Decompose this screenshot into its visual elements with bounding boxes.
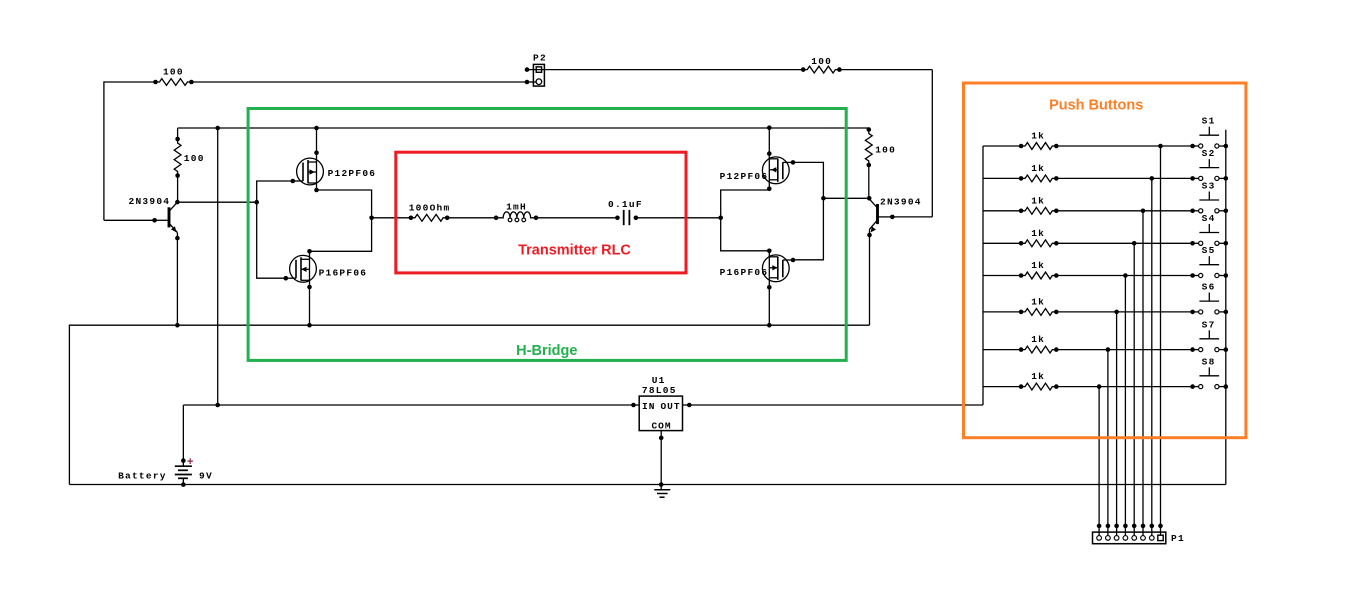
svg-text:Battery: Battery: [118, 471, 167, 482]
wire RLC series link: [372, 217, 411, 219]
junction row S3 / column: [1141, 209, 1146, 214]
resistor R 100 top-left: [156, 79, 192, 86]
wire left drain bus: [310, 190, 372, 251]
wire top-right feed: [527, 69, 803, 71]
svg-text:+: +: [187, 457, 194, 469]
svg-text:100Ohm: 100Ohm: [409, 203, 451, 214]
wire column to P1 pin 7: [1107, 350, 1109, 536]
ground symbol: [654, 485, 670, 498]
wire M1 source drop: [316, 128, 318, 153]
svg-text:100: 100: [811, 56, 832, 67]
mosfet M2 P16PF06 bottom-left: [284, 249, 317, 289]
capacitor 0.1uF: [623, 210, 625, 225]
switch S8: [1190, 367, 1228, 389]
svg-text:IN: IN: [642, 401, 655, 412]
svg-text:P12PF06: P12PF06: [720, 171, 769, 182]
wire push-button row S3: [983, 210, 1021, 212]
wire push-button row S2: [983, 177, 1021, 179]
wire battery column vertical: [217, 128, 219, 405]
svg-text:S5: S5: [1202, 245, 1216, 256]
svg-text:0.1uF: 0.1uF: [608, 199, 643, 210]
resistor 100Ohm: [411, 214, 447, 221]
wire push-button row S6: [983, 311, 1021, 313]
svg-text:P1: P1: [1171, 533, 1185, 544]
svg-text:Push Buttons: Push Buttons: [1049, 98, 1143, 114]
inductor 1mH: [496, 212, 536, 218]
mosfet M1 P12PF06 top-left: [291, 150, 324, 192]
transistor Q2 2N3904 right: [867, 196, 895, 237]
svg-text:H-Bridge: H-Bridge: [516, 343, 577, 359]
wire Q1 emitter drop: [176, 238, 178, 325]
junction row S2 / column: [1150, 176, 1155, 181]
svg-text:P12PF06: P12PF06: [328, 168, 377, 179]
svg-text:COM: COM: [651, 420, 671, 431]
wire M4 source to bottom rail: [768, 287, 770, 325]
switch S3: [1190, 192, 1228, 214]
junction top rail / M1 source: [314, 126, 319, 131]
wire push-button row S7: [983, 349, 1021, 351]
svg-text:1k: 1k: [1031, 334, 1045, 345]
switch S2: [1190, 159, 1228, 181]
svg-text:78L05: 78L05: [642, 385, 677, 396]
wire Q2 base feed: [892, 216, 932, 218]
wire M2 source to bottom rail: [309, 287, 311, 325]
svg-text:2N3904: 2N3904: [880, 197, 922, 208]
Push Buttons annotation box: [964, 83, 1246, 438]
svg-text:OUT: OUT: [660, 401, 680, 412]
wire push-button row S4: [983, 242, 1021, 244]
svg-text:9V: 9V: [199, 471, 213, 482]
Transmitter RLC annotation box: [396, 152, 686, 273]
wire column to P1 pin 6: [1116, 312, 1118, 535]
wire push-button row S8: [983, 386, 1021, 388]
svg-text:1k: 1k: [1031, 260, 1045, 271]
svg-text:P16PF06: P16PF06: [319, 268, 368, 279]
wire right drain bus: [721, 190, 770, 251]
resistor 1k row S8: [1021, 383, 1056, 390]
svg-text:1k: 1k: [1031, 131, 1045, 142]
junction bottom rail / M4 source: [767, 323, 772, 328]
wire U1 COM to ground rail: [660, 438, 662, 485]
junction right drain bus / RLC: [718, 216, 723, 221]
junction bottom rail / Q1 emitter: [175, 323, 180, 328]
connector P1: [1093, 524, 1166, 544]
wire top-left V+ feed: [104, 81, 156, 83]
connector P2: [525, 64, 545, 86]
svg-text:P2: P2: [533, 53, 547, 64]
wire column to P1 pin 3: [1142, 211, 1144, 535]
svg-text:S8: S8: [1202, 356, 1216, 367]
wire Q2 emitter to bottom rail: [869, 235, 871, 325]
battery 9V: [175, 405, 192, 487]
switch S4: [1190, 224, 1228, 246]
junction row S5 / column: [1123, 273, 1128, 278]
junction top rail / M3 source: [767, 125, 772, 130]
switch S6: [1190, 293, 1228, 315]
svg-text:1k: 1k: [1031, 296, 1045, 307]
wire right gate rail: [793, 162, 823, 259]
wire U1 OUT to push-button rail: [689, 404, 983, 406]
wire left gate rail: [257, 181, 293, 278]
junction left drain bus / RLC: [369, 216, 374, 221]
wire top H-bridge rail: [178, 127, 869, 129]
svg-text:S7: S7: [1202, 319, 1216, 330]
junction right gate rail / drive: [821, 196, 826, 201]
wire column to P1 pin 4: [1133, 243, 1135, 535]
junction top rail / battery column: [215, 126, 220, 131]
svg-text:S1: S1: [1202, 116, 1216, 127]
wire bottom H-bridge rail: [69, 325, 869, 484]
regulator U1 78L05: [631, 396, 691, 440]
svg-text:S6: S6: [1202, 282, 1216, 293]
wire supply rail to U1 IN: [183, 404, 633, 406]
svg-text:1k: 1k: [1031, 228, 1045, 239]
resistor 1k row S5: [1021, 272, 1056, 279]
transistor Q1 2N3904: [152, 200, 179, 241]
svg-text:2N3904: 2N3904: [129, 196, 171, 207]
svg-text:Transmitter RLC: Transmitter RLC: [518, 242, 631, 258]
resistor 1k row S4: [1021, 240, 1056, 247]
svg-text:P16PF06: P16PF06: [720, 267, 769, 278]
svg-text:100: 100: [184, 153, 205, 164]
svg-text:1k: 1k: [1031, 163, 1045, 174]
svg-text:S3: S3: [1202, 181, 1216, 192]
wire column to P1 pin 1: [1160, 146, 1162, 535]
junction row S7 / column: [1106, 347, 1111, 352]
svg-text:1k: 1k: [1031, 371, 1045, 382]
junction ground rail / U1 COM: [659, 482, 664, 487]
wire column to P1 pin 8: [1098, 387, 1100, 536]
mosfet M3 P12PF06 top-right: [762, 151, 795, 191]
wire column to P1 pin 2: [1151, 178, 1153, 535]
resistor 1k row S7: [1021, 346, 1056, 353]
wire right gate drive: [823, 197, 869, 199]
switch S1: [1190, 127, 1228, 149]
wire left drop to Q1 base: [103, 81, 105, 220]
junction left gate rail / drive: [254, 200, 259, 205]
wire Q1 collector to left gate rail: [177, 201, 256, 203]
junction row S6 / column: [1114, 310, 1119, 315]
wire column to P1 pin 5: [1124, 276, 1126, 536]
resistor 1k row S2: [1021, 175, 1056, 182]
svg-text:S2: S2: [1202, 148, 1216, 159]
junction bottom rail / M2 source: [307, 323, 312, 328]
junction row S1 / column: [1158, 144, 1163, 149]
resistor 1k row S1: [1021, 143, 1056, 150]
resistor R 100 vertical left: [177, 128, 179, 139]
switch S5: [1190, 256, 1228, 278]
resistor R 100 vertical right: [868, 128, 870, 130]
resistor 1k row S3: [1021, 207, 1056, 214]
junction row S8 / column: [1097, 384, 1102, 389]
resistor R 100 top-right: [803, 66, 839, 73]
wire push-button row S1: [983, 145, 1021, 147]
wire push-button row S5: [983, 275, 1021, 277]
svg-text:1k: 1k: [1031, 195, 1045, 206]
svg-text:100: 100: [163, 67, 184, 78]
svg-text:S4: S4: [1202, 213, 1216, 224]
wire ground rail: [69, 484, 1225, 486]
H-Bridge annotation box: [248, 109, 846, 361]
wire M3 source drop: [768, 128, 770, 154]
svg-text:100: 100: [875, 144, 896, 155]
wire switches common rail: [1225, 130, 1227, 485]
resistor 1k row S6: [1021, 309, 1056, 316]
junction row S4 / column: [1132, 241, 1137, 246]
switch S7: [1190, 330, 1228, 352]
mosfet M4 P16PF06 bottom-right: [762, 249, 795, 290]
svg-text:1mH: 1mH: [506, 202, 527, 213]
junction battery column at supply wire: [215, 403, 220, 408]
